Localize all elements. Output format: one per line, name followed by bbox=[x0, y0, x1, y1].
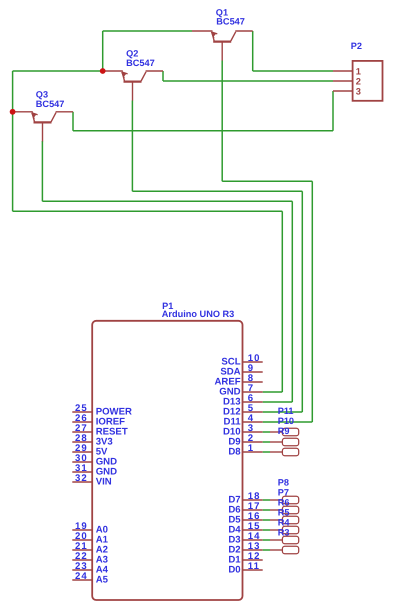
svg-text:BC547: BC547 bbox=[36, 99, 65, 109]
wire Q1 base vertical bbox=[221, 61, 223, 182]
part R5 body bbox=[270, 526, 299, 534]
pin 5 D12 stub bbox=[243, 411, 263, 413]
part P11 body bbox=[270, 428, 299, 436]
svg-text:3: 3 bbox=[356, 87, 361, 97]
pin 27 RESET stub bbox=[72, 431, 92, 433]
pin 21 A2 stub bbox=[72, 549, 92, 551]
svg-text:BC547: BC547 bbox=[126, 58, 155, 68]
pin 17 D6 stub bbox=[243, 509, 263, 511]
wire Q1 collector drop bbox=[252, 31, 254, 71]
pin 9 SDA stub bbox=[243, 371, 263, 373]
part R4 body bbox=[270, 536, 299, 544]
pin 4 D11 stub bbox=[243, 421, 263, 423]
wire to R6 bbox=[263, 519, 270, 521]
wire Q3 base run horizontal bbox=[42, 200, 292, 202]
wire Q3 base vertical bbox=[41, 141, 43, 201]
transistor Q3 bbox=[13, 112, 73, 142]
wire Q1 base run vertical bbox=[311, 181, 313, 422]
part P7 body bbox=[270, 506, 299, 514]
wire Q3 base run vertical bbox=[291, 201, 293, 402]
wire D12 to pin 5 bbox=[263, 411, 303, 413]
svg-text:VIN: VIN bbox=[96, 476, 112, 487]
svg-text:P11: P11 bbox=[278, 406, 294, 416]
wire Q2 base run horizontal bbox=[132, 190, 302, 192]
svg-text:24: 24 bbox=[75, 571, 88, 582]
wire emitter bus vertical left bbox=[12, 71, 14, 211]
pin 13 D2 stub bbox=[243, 549, 263, 551]
pin 31 GND stub bbox=[72, 471, 92, 473]
pin 10 SCL stub bbox=[243, 361, 263, 363]
svg-text:P2: P2 bbox=[351, 41, 362, 51]
pin 6 D13 stub bbox=[243, 401, 263, 403]
pin 15 D4 stub bbox=[243, 529, 263, 531]
wire to P8 bbox=[263, 499, 270, 501]
svg-text:1: 1 bbox=[356, 67, 361, 77]
pin 14 D3 stub bbox=[243, 539, 263, 541]
pin 25 POWER stub bbox=[72, 411, 92, 413]
svg-text:11: 11 bbox=[248, 561, 260, 572]
svg-text:32: 32 bbox=[75, 473, 88, 484]
pin 1 D8 stub bbox=[243, 451, 263, 453]
wire Q1 emitter drop bbox=[102, 31, 104, 71]
pin 29 5V stub bbox=[72, 451, 92, 453]
svg-text:2: 2 bbox=[356, 77, 361, 87]
wire to R3 bbox=[263, 549, 270, 551]
wire to P2 pin 2 bbox=[163, 80, 333, 82]
svg-text:R5: R5 bbox=[278, 507, 290, 517]
transistor Q1 bbox=[192, 31, 253, 61]
wire to P11 bbox=[263, 431, 270, 433]
pin 19 A0 stub bbox=[72, 529, 92, 531]
pin 24 A5 stub bbox=[72, 579, 92, 581]
wire Q1 emitter horizontal bbox=[103, 30, 192, 32]
pin 26 IOREF stub bbox=[72, 421, 92, 423]
pin 32 VIN stub bbox=[72, 481, 92, 483]
wire D11 to pin 4 bbox=[263, 421, 313, 423]
svg-text:A5: A5 bbox=[96, 574, 109, 585]
svg-text:D0: D0 bbox=[228, 564, 240, 575]
svg-text:Q3: Q3 bbox=[36, 89, 48, 99]
part P10 body bbox=[270, 438, 299, 446]
svg-text:1: 1 bbox=[248, 443, 254, 454]
part R9 body bbox=[270, 448, 299, 456]
wire to P2 pin 3 vertical bbox=[332, 91, 334, 131]
wire D13 to pin 6 bbox=[263, 401, 293, 403]
mcu P1 Arduino UNO R3 body bbox=[92, 321, 242, 600]
svg-text:R9: R9 bbox=[278, 426, 290, 436]
pin 11 D0 stub bbox=[243, 569, 263, 571]
pin 18 D7 stub bbox=[243, 499, 263, 501]
svg-text:BC547: BC547 bbox=[216, 17, 245, 27]
pin 2 D9 stub bbox=[243, 441, 263, 443]
wire GND run horizontal bbox=[13, 210, 283, 212]
wire to R4 bbox=[263, 539, 270, 541]
node junction at Q3 emitter bbox=[10, 109, 16, 115]
transistor Q2 bbox=[103, 71, 163, 101]
pin 16 D5 stub bbox=[243, 519, 263, 521]
pin 23 A4 stub bbox=[72, 569, 92, 571]
wire GND run vertical bbox=[281, 211, 283, 392]
wire to R5 bbox=[263, 529, 270, 531]
wire Q2 base run vertical bbox=[301, 191, 303, 412]
node junction at Q2 emitter bbox=[100, 68, 106, 74]
part P8 body bbox=[270, 496, 299, 504]
wire Q3 collector jog bbox=[72, 112, 74, 131]
wire emitter bus horizontal bbox=[13, 70, 103, 72]
pin 7 GND stub bbox=[243, 391, 263, 393]
pin 3 D10 stub bbox=[243, 431, 263, 433]
part R6 body bbox=[270, 516, 299, 524]
pin 30 GND stub bbox=[72, 461, 92, 463]
pin 28 3V3 stub bbox=[72, 441, 92, 443]
pin 20 A1 stub bbox=[72, 539, 92, 541]
svg-text:P7: P7 bbox=[278, 487, 289, 497]
part R3 body bbox=[270, 546, 299, 554]
svg-text:R6: R6 bbox=[278, 497, 290, 507]
wire to P2 pin 1 bbox=[253, 70, 333, 72]
svg-text:R4: R4 bbox=[278, 517, 291, 527]
svg-text:Arduino UNO R3: Arduino UNO R3 bbox=[162, 309, 234, 319]
svg-text:D8: D8 bbox=[228, 446, 241, 457]
svg-text:P8: P8 bbox=[278, 477, 289, 487]
svg-text:Q2: Q2 bbox=[126, 48, 138, 58]
wire to P2 pin 3 horizontal bbox=[73, 130, 333, 132]
pin 12 D1 stub bbox=[243, 559, 263, 561]
wire to R9 bbox=[263, 451, 270, 453]
wire Q2 collector jog bbox=[162, 71, 164, 81]
wire GND to pin 7 bbox=[263, 391, 283, 393]
wire Q2 base vertical bbox=[131, 101, 133, 192]
svg-text:P10: P10 bbox=[278, 416, 294, 426]
wire Q1 base run horizontal bbox=[222, 180, 312, 182]
wire to P10 bbox=[263, 441, 270, 443]
connector P2 bbox=[333, 61, 383, 101]
pin 22 A3 stub bbox=[72, 559, 92, 561]
pin 8 AREF stub bbox=[243, 381, 263, 383]
svg-text:R3: R3 bbox=[278, 527, 290, 537]
wire to P7 bbox=[263, 509, 270, 511]
